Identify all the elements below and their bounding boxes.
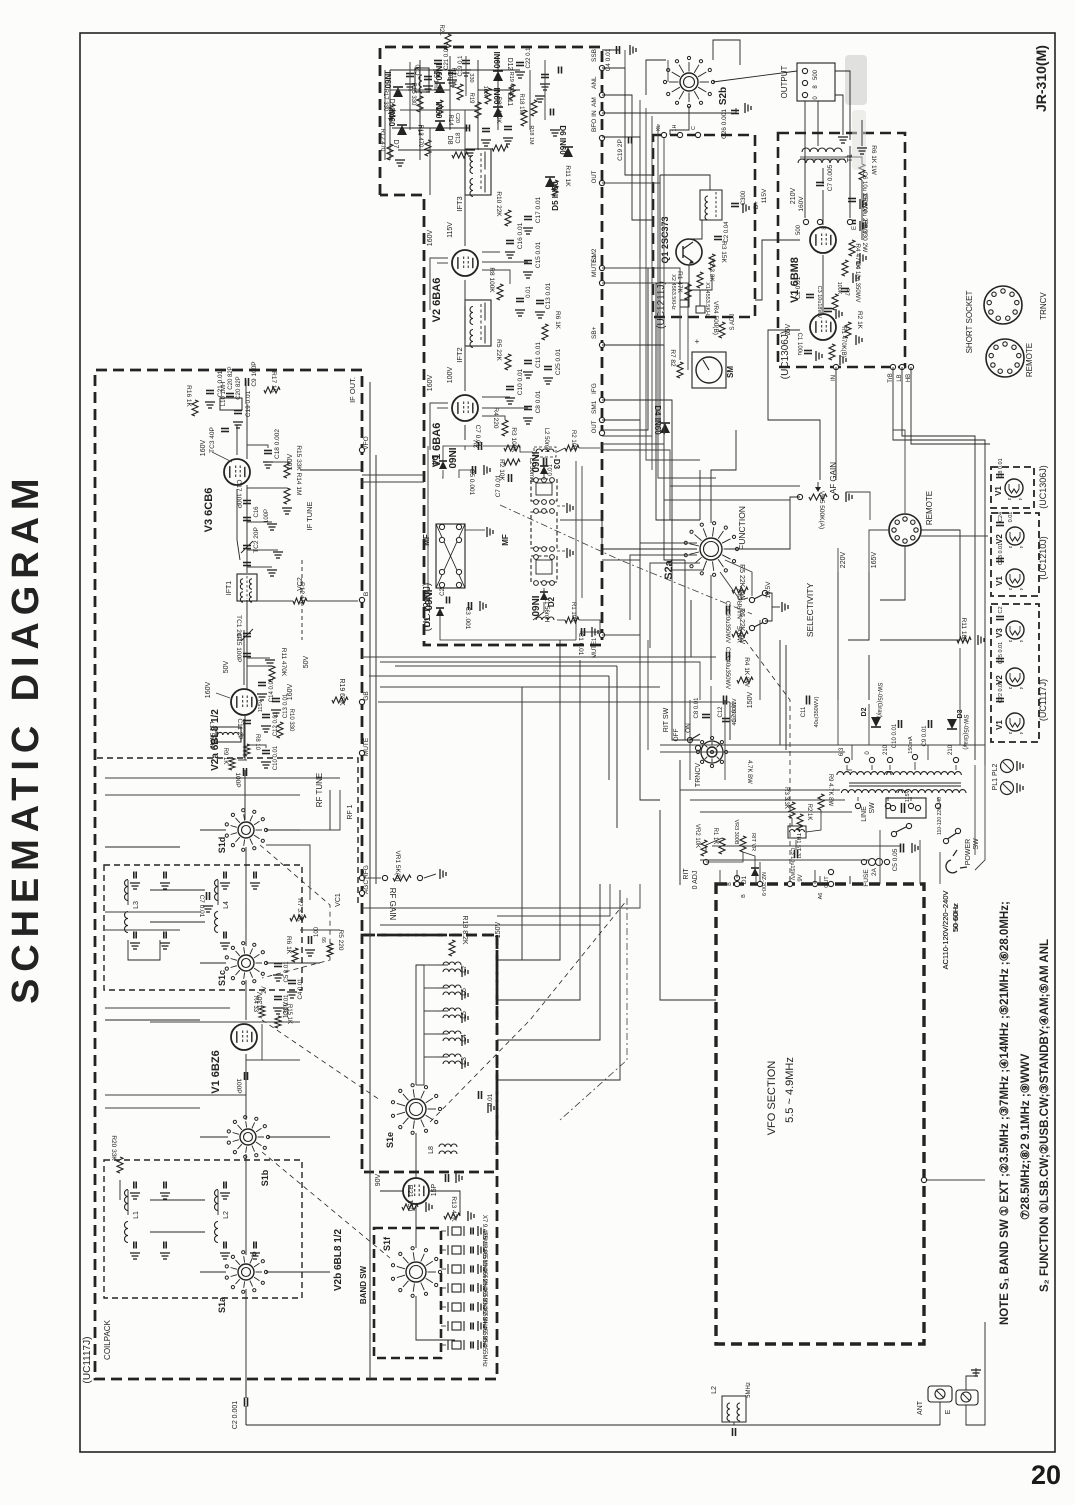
capacitor C1 100u au [796, 333, 822, 361]
rotary switch S1d [217, 809, 268, 854]
svg-text:R5 220: R5 220 [337, 930, 344, 951]
svg-text:VR5 500K(A): VR5 500K(A) [818, 491, 825, 529]
note line 3 [1038, 939, 1051, 1292]
heater V1 1117 [995, 681, 1024, 735]
label 115V [447, 222, 454, 238]
svg-text:V2 6BA6: V2 6BA6 [431, 278, 443, 323]
svg-text:AM: AM [591, 97, 598, 107]
tube V1 6BM8 p [789, 227, 836, 303]
bus wires B [646, 40, 990, 480]
svg-text:D7: D7 [392, 140, 399, 149]
resistor R6 22K 3W [732, 608, 748, 644]
resistor R20 33K [110, 1135, 123, 1173]
coil L3 band [436, 1054, 468, 1069]
routing af chain [664, 430, 988, 548]
terminal B [359, 592, 370, 603]
svg-text:C24: C24 [998, 512, 1004, 522]
bus wires D [237, 425, 620, 1398]
pilot lamps PL1 PL2 [992, 760, 1023, 795]
capacitor C5 0.05 [892, 843, 918, 871]
svg-text:C19 2P: C19 2P [617, 139, 624, 161]
capacitor trimmer [250, 872, 260, 890]
vfo bottom terminal [921, 1177, 985, 1182]
svg-text:SM1: SM1 [591, 400, 598, 414]
svg-text:Q1 2SC373: Q1 2SC373 [660, 216, 670, 263]
svg-text:X7 9.455MHz: X7 9.455MHz [481, 1215, 487, 1251]
resistor R11 18K [940, 618, 984, 645]
svg-text:X2 4563.5KHz: X2 4563.5KHz [670, 274, 676, 310]
bus wires E [380, 810, 985, 1340]
label 50V [303, 655, 310, 668]
svg-text:4: 4 [1019, 640, 1024, 643]
svg-text:FUSE: FUSE [863, 869, 870, 887]
svg-text:100K: 100K [836, 282, 842, 295]
trimmer TC2 20P [241, 527, 283, 558]
fuse 2A [861, 859, 889, 887]
transformer IFT3 [455, 149, 491, 212]
capacitor trimmer [220, 1242, 230, 1260]
detector extra parts [385, 56, 562, 160]
svg-text:ANL: ANL [591, 76, 598, 89]
coilpack wires [105, 380, 330, 1272]
smudge phone [845, 55, 867, 170]
svg-text:R1 10K: R1 10K [570, 602, 576, 622]
svg-text:IN60: IN60 [434, 64, 443, 81]
svg-text:R4 1K 8W: R4 1K 8W [743, 657, 750, 687]
svg-text:NOTE S₁ BAND SW ① EXT ;②3.5: NOTE S₁ BAND SW ① EXT ;②3.5MHz ;③7MHz ;④… [998, 901, 1011, 1325]
heater V1 1306 [994, 458, 1023, 500]
svg-text:R11 1K: R11 1K [564, 165, 571, 187]
svg-text:S1a: S1a [217, 1296, 227, 1313]
svg-text:3: 3 [1008, 546, 1013, 549]
resistor R6 1K [542, 311, 561, 340]
svg-text:E: E [852, 226, 858, 230]
output terminal box [797, 63, 835, 101]
svg-text:C20 82P: C20 82P [228, 366, 234, 389]
vfo top terminals [734, 862, 833, 899]
terminal OUT mf [592, 420, 605, 435]
svg-text:C13 40u350WV: C13 40u350WV [724, 647, 730, 689]
svg-text:D1: D1 [423, 616, 432, 627]
svg-text:R2 3.3K: R2 3.3K [708, 258, 715, 282]
resistor R19 100P [468, 92, 481, 118]
terminal MUTE [359, 737, 370, 756]
svg-text:IFT2: IFT2 [455, 347, 464, 362]
resistor R21 1M [450, 67, 463, 100]
resistor R4 33 [252, 996, 265, 1018]
svg-text:100V: 100V [447, 367, 454, 384]
svg-text:C15 100P: C15 100P [235, 634, 242, 663]
svg-text:C21 0.001: C21 0.001 [444, 42, 450, 70]
diode D11 IN60 [492, 88, 513, 117]
svg-text:R5 22K 8W: R5 22K 8W [738, 564, 745, 600]
bus wires A [602, 50, 736, 800]
svg-text:40u(350WV): 40u(350WV) [814, 696, 820, 727]
resistor R9 1K [222, 748, 247, 770]
svg-text:AC110-120V/220~240V: AC110-120V/220~240V [941, 891, 950, 970]
capacitor C18 0.002 [247, 429, 281, 468]
svg-text:S1d: S1d [217, 837, 227, 854]
terminal ANL [591, 76, 605, 98]
label B+ 115V [753, 188, 768, 209]
terminal XL [656, 125, 667, 138]
svg-text:R18 1M: R18 1M [528, 125, 534, 145]
capacitor C18 100P [456, 125, 470, 144]
svg-text:C3 10u18WV: C3 10u18WV [816, 286, 822, 319]
svg-text:C12 0.01: C12 0.01 [273, 711, 279, 736]
capacitor trimmer [160, 872, 170, 890]
svg-text:4: 4 [1019, 732, 1024, 735]
svg-text:R7: R7 [843, 288, 849, 296]
svg-text:R8 100K: R8 100K [488, 267, 495, 293]
svg-text:50V: 50V [303, 655, 310, 668]
transformer T1 output [798, 148, 854, 163]
wires s1bc extra [105, 905, 340, 1060]
svg-text:4: 4 [1019, 588, 1024, 591]
svg-text:SW-05(Gray): SW-05(Gray) [962, 714, 968, 749]
svg-text:R19 470K: R19 470K [508, 72, 514, 97]
svg-text:TRNCV: TRNCV [1039, 292, 1048, 320]
svg-text:115V: 115V [905, 789, 911, 802]
svg-text:R15 33K: R15 33K [295, 445, 302, 471]
svg-text:220V: 220V [840, 552, 847, 569]
svg-text:PL1 PL2: PL1 PL2 [992, 763, 999, 790]
capacitor trimmer [130, 1242, 140, 1260]
terminal LB [897, 364, 905, 381]
label 2V [473, 439, 480, 448]
svg-text:S1f: S1f [382, 1236, 392, 1251]
svg-text:150V: 150V [495, 922, 502, 939]
svg-text:C10 0.01: C10 0.01 [892, 723, 898, 748]
resistor R12 1K [257, 582, 358, 604]
diode D3 IN60 mf [529, 451, 561, 474]
capacitor trimmer [160, 932, 170, 950]
meter SM [669, 337, 735, 388]
resistor R2L 1M [438, 24, 451, 50]
svg-text:C14 20u350WV: C14 20u350WV [724, 601, 730, 643]
svg-text:210: 210 [948, 744, 954, 755]
capacitor C2 0.01 au [795, 276, 814, 299]
svg-text:SSB: SSB [591, 49, 598, 62]
svg-text:R19: R19 [468, 92, 474, 104]
svg-text:500: 500 [796, 224, 802, 235]
capacitor C13 40u 350WV [724, 647, 730, 689]
resistor R3 15K [709, 241, 727, 270]
function switch wires [602, 543, 752, 660]
svg-text:MF: MF [422, 534, 431, 546]
svg-text:MUTE: MUTE [363, 737, 370, 756]
coil L3 [125, 880, 140, 933]
svg-text:R10 22K: R10 22K [495, 191, 502, 217]
svg-text:C10 0.01: C10 0.01 [273, 745, 279, 770]
svg-text:C5 0.05: C5 0.05 [892, 848, 899, 871]
trimmer TC1 20P [235, 615, 253, 641]
svg-text:IN60: IN60 [446, 447, 457, 469]
svg-text:SCHEMATIC DIAGRAM: SCHEMATIC DIAGRAM [5, 472, 47, 1004]
capacitor C9 001 [922, 720, 932, 747]
svg-text:150V: 150V [747, 692, 754, 709]
svg-text:IFT1: IFT1 [226, 581, 233, 595]
wire v3 plate chain [245, 404, 247, 820]
resistor R15 33K [268, 445, 302, 478]
resistor R11 470K [247, 648, 287, 682]
svg-text:S1c: S1c [217, 970, 227, 986]
capacitor C2 0.001 [232, 1379, 248, 1429]
resistor R14 1M [247, 473, 302, 514]
capacitor C26 0.001 [721, 103, 751, 139]
capacitor C15 100P [235, 634, 275, 666]
terminal TrB [888, 364, 896, 382]
svg-text:GB: GB [363, 691, 370, 700]
label 130V [283, 1002, 290, 1019]
heater box UC1117J [991, 604, 1048, 742]
svg-text:C2 0.04: C2 0.04 [724, 221, 730, 243]
tube V3 6CB6 [203, 459, 250, 532]
VFO section box [716, 884, 924, 1344]
rit cluster detail [683, 774, 834, 896]
svg-text:TRNCV: TRNCV [695, 763, 702, 787]
diode D10 IN60 [383, 72, 403, 112]
svg-text:S1e: S1e [385, 1132, 395, 1148]
svg-text:C22 0.01: C22 0.01 [998, 681, 1004, 703]
svg-text:MF: MF [501, 534, 510, 546]
diode D4 IN60 mf [430, 447, 457, 469]
vfo dash link [560, 898, 627, 1120]
rotary switch S1a [217, 1251, 268, 1313]
ground ant [966, 1368, 981, 1390]
svg-text:VR2 10K: VR2 10K [694, 824, 700, 848]
resistor VR4 500B [712, 301, 736, 338]
svg-text:C11 2P: C11 2P [236, 718, 243, 739]
coil L11 5MHz [208, 722, 245, 749]
svg-text:C12: C12 [718, 706, 724, 718]
capacitor C21 0.001 [433, 42, 450, 77]
capacitor 100P s1b [235, 1072, 248, 1094]
svg-text:FUNCTION: FUNCTION [737, 506, 747, 550]
bus wire vfo line [369, 382, 371, 1379]
capacitor 100P grid [234, 768, 247, 788]
svg-text:L2: L2 [711, 1386, 718, 1394]
svg-text:R18 8.2K: R18 8.2K [461, 915, 468, 945]
rotary switch S1b [227, 1116, 270, 1187]
crystal X1 35.055MHz [441, 1327, 487, 1367]
svg-text:4.7K BW: 4.7K BW [746, 760, 752, 784]
svg-text:AF GAIN: AF GAIN [829, 462, 838, 494]
label 160V v1 [427, 375, 434, 392]
svg-text:R15 1K: R15 1K [286, 1004, 292, 1024]
svg-text:2A: 2A [871, 867, 878, 876]
svg-text:C2: C2 [440, 588, 446, 596]
svg-text:RIT VR: RIT VR [750, 833, 756, 851]
svg-text:100P: 100P [264, 509, 270, 523]
svg-text:BFO IN: BFO IN [591, 110, 598, 132]
tube V2b 6BL8 [333, 1178, 429, 1291]
capacitor C1 0.01 mf [577, 627, 598, 656]
tube V2a 6BL8 [210, 689, 257, 771]
svg-text:C11 0.01: C11 0.01 [535, 342, 542, 368]
svg-text:D4: D4 [430, 455, 439, 466]
svg-text:50-60Hz: 50-60Hz [951, 903, 960, 932]
resistor R4 470K [842, 243, 861, 283]
svg-text:IN60: IN60 [529, 595, 540, 617]
svg-text:SB+: SB+ [591, 326, 598, 339]
svg-text:D3: D3 [552, 459, 561, 470]
resistor R4 220 [492, 408, 508, 436]
ground mf 2 [557, 548, 573, 558]
svg-text:ANT: ANT [917, 1400, 924, 1415]
routing right column [602, 183, 985, 870]
svg-text:L3: L3 [133, 901, 140, 909]
svg-text:R1 470K(B): R1 470K(B) [840, 326, 846, 357]
svg-text:R14: R14 [416, 125, 422, 135]
capacitor C13 0.01b [535, 282, 552, 318]
resistor R5 330 2W [849, 220, 868, 263]
coil L1 56mH [536, 598, 554, 622]
svg-text:+: + [695, 337, 700, 346]
svg-text:R20 33K: R20 33K [110, 1135, 117, 1161]
svg-text:R9 1K: R9 1K [222, 748, 228, 765]
label AC110 volts [941, 891, 960, 970]
svg-text:115V: 115V [447, 222, 454, 238]
svg-text:S₂ FUNCTION ①LSB.CW;②USB.CW;③S: S₂ FUNCTION ①LSB.CW;②USB.CW;③STANDBY;④AM… [1038, 939, 1051, 1292]
svg-text:R12 470: R12 470 [379, 129, 385, 152]
svg-text:210V: 210V [790, 188, 797, 205]
svg-text:BAND SW: BAND SW [359, 1265, 368, 1304]
svg-text:C9 0.01: C9 0.01 [922, 725, 928, 747]
svg-text:500: 500 [813, 69, 819, 80]
svg-text:SELECTIVITY: SELECTIVITY [805, 583, 815, 638]
wire vc2 [297, 560, 304, 640]
svg-text:C16 0.01: C16 0.01 [517, 222, 524, 249]
resistor R15 330 [410, 83, 423, 112]
svg-text:C7 0.01: C7 0.01 [474, 425, 481, 448]
svg-text:330: 330 [468, 73, 474, 82]
rotary switch S1e [385, 1084, 442, 1148]
svg-text:C11: C11 [801, 706, 807, 717]
svg-text:R8 10: R8 10 [254, 734, 260, 751]
capacitor C14 0.01 [257, 677, 275, 702]
svg-text:R7 3.3K: R7 3.3K [296, 898, 303, 922]
svg-text:C22 0.1: C22 0.1 [526, 47, 532, 69]
capacitor trimmer [130, 1182, 140, 1200]
socket REMOTE [986, 339, 1034, 377]
label 160V v2a2 [205, 682, 230, 699]
resistor R21 150 [402, 1185, 432, 1212]
coil L2 50mH [534, 428, 556, 457]
svg-text:R4 220: R4 220 [492, 408, 499, 429]
terminal BFO IN [591, 110, 605, 141]
crystal X1 4553 [696, 282, 710, 318]
tube V2 6BA6 [431, 250, 478, 322]
rotary switch S2b [663, 56, 729, 107]
svg-text:L4: L4 [223, 901, 230, 909]
capacitor chain extra [243, 563, 277, 577]
note line 1 [998, 901, 1011, 1325]
resistor R2 10K mf [565, 430, 579, 451]
capacitor C5 0.01 s1c [273, 961, 290, 983]
crystal X3 33.355MHz [441, 1289, 487, 1329]
routing mid horizontals [362, 475, 716, 925]
svg-text:RIT: RIT [683, 868, 690, 880]
wire coilpack rows [105, 778, 340, 1108]
label 150V mid [747, 692, 754, 709]
switch NARROW WIDE [737, 581, 788, 643]
svg-text:V1: V1 [995, 576, 1004, 586]
capacitor C19 0.01 [233, 390, 252, 428]
rit cluster [663, 697, 752, 787]
svg-text:VR3 300B: VR3 300B [733, 819, 739, 844]
svg-text:R14 1M: R14 1M [295, 473, 302, 496]
capacitor C11 0.01 [523, 342, 542, 378]
capacitor C20 82P [226, 366, 242, 399]
label 115V v2a [258, 699, 264, 712]
svg-text:B: B [727, 882, 733, 886]
svg-text:D1: D1 [741, 875, 748, 884]
svg-text:OUT: OUT [592, 420, 598, 433]
svg-text:C18 0.002: C18 0.002 [274, 429, 281, 459]
module box UC1210J [380, 47, 602, 645]
diode D4 IN60 [653, 405, 670, 435]
label 130V b [257, 992, 264, 1009]
svg-text:160V: 160V [200, 440, 207, 457]
svg-text:5.5 ~ 4.9MHz: 5.5 ~ 4.9MHz [784, 1057, 796, 1123]
svg-text:VC1: VC1 [335, 893, 342, 907]
crystal X7 9.455MHz [441, 1215, 487, 1251]
capacitor C11 2P [236, 718, 251, 739]
svg-text:C20: C20 [454, 113, 460, 123]
svg-text:AGC: AGC [363, 880, 370, 894]
svg-text:10.5V: 10.5V [765, 581, 772, 599]
svg-text:IF OUT.: IF OUT. [348, 377, 357, 403]
svg-text:TC2 20P: TC2 20P [253, 527, 260, 553]
svg-text:2V: 2V [262, 986, 268, 993]
resistor R2 10K [498, 458, 554, 482]
heater V2 1117 [995, 642, 1024, 690]
diode D3 SW05 [947, 709, 968, 749]
svg-text:R4 33: R4 33 [252, 996, 258, 1013]
capacitor C8 0.01 [523, 390, 542, 424]
svg-text:V1 6BZ6: V1 6BZ6 [210, 1050, 222, 1093]
if strip connect wires [430, 110, 528, 450]
band coil box S1e [362, 935, 497, 1172]
svg-text:C25 0.01: C25 0.01 [555, 348, 562, 375]
line sw contacts [891, 823, 911, 836]
resistor R7 3.3K [290, 898, 306, 922]
svg-text:0.01: 0.01 [526, 286, 532, 298]
capacitor C5 0.001 [468, 465, 490, 496]
label RF TUNE [315, 773, 324, 808]
svg-text:100P: 100P [235, 1078, 242, 1093]
svg-text:COILPACK: COILPACK [103, 1319, 112, 1360]
resistor R8 10 [244, 734, 260, 756]
crystal X4 26.955MHz [441, 1270, 487, 1310]
resistor R4 1K 8W [737, 657, 753, 687]
svg-text:IN60: IN60 [529, 451, 540, 473]
resistor R1 47K [676, 271, 691, 300]
capacitor C12 40u [718, 696, 738, 726]
band switch box S1f [374, 1228, 441, 1358]
svg-text:R18 1M: R18 1M [518, 93, 524, 114]
terminal IFG [591, 383, 605, 402]
capacitor C6 10u [848, 172, 867, 213]
svg-text:40u350WV: 40u350WV [732, 698, 738, 726]
svg-text:RFG: RFG [363, 865, 370, 879]
terminal HB [906, 364, 914, 382]
capacitor 15P [431, 1173, 462, 1196]
svg-text:C4 0.01: C4 0.01 [298, 978, 304, 1000]
svg-text:C300: C300 [741, 190, 747, 205]
socket REMOTE mid [889, 491, 934, 546]
